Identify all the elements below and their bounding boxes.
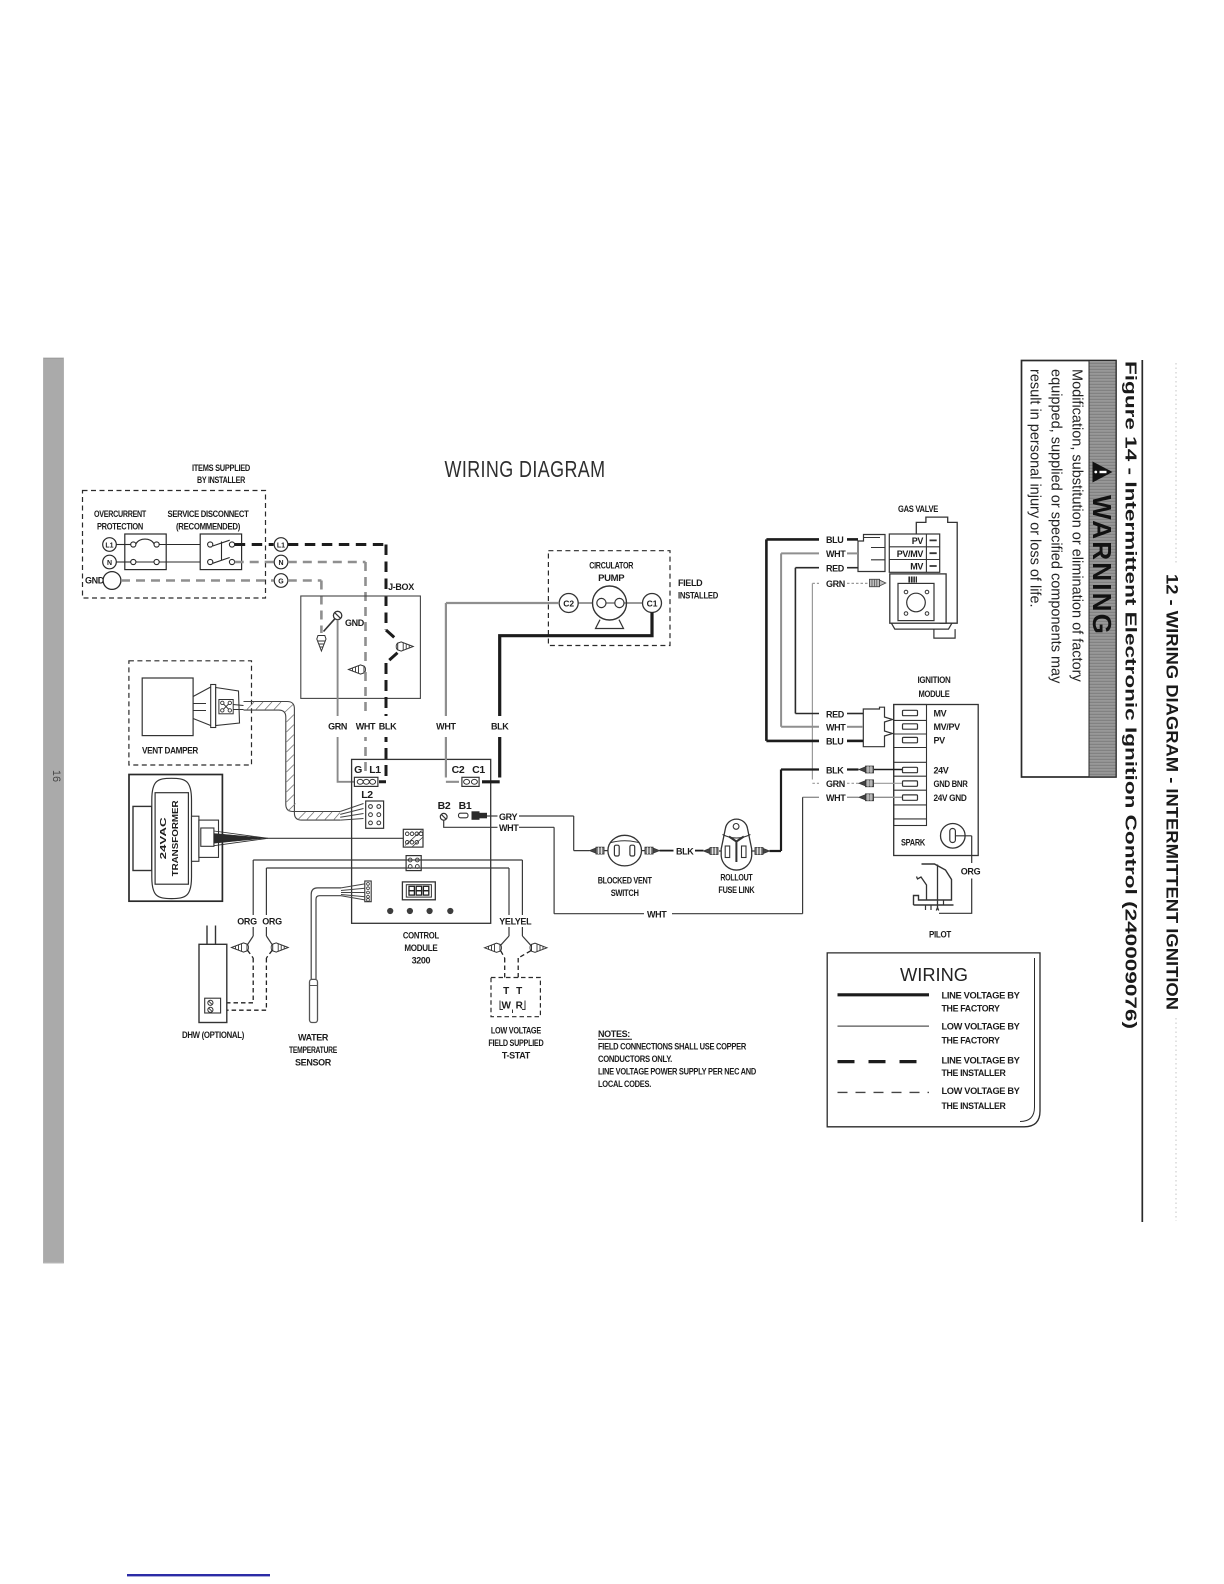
wire BLK chevron through nut: [379, 630, 398, 782]
svg-text:WIRING DIAGRAM: WIRING DIAGRAM: [445, 456, 606, 482]
pump dashed enclosure: [548, 551, 670, 646]
svg-text:C1: C1: [647, 599, 658, 609]
svg-text:LOW VOLTAGE BY: LOW VOLTAGE BY: [942, 1021, 1020, 1031]
wire nut (hot splice): [396, 642, 413, 651]
svg-text:BLK: BLK: [491, 722, 509, 732]
svg-text:3200: 3200: [412, 956, 431, 966]
svg-text:BLK: BLK: [676, 846, 694, 856]
label WHT BLK (pump wires): [432, 716, 514, 737]
svg-text:C1: C1: [472, 764, 485, 776]
wire BLU vertical run: [765, 539, 768, 741]
label ROLLOUT FUSE LINK: [718, 873, 755, 896]
terminal block G L1: [354, 764, 381, 786]
svg-text:24V GND: 24V GND: [934, 793, 968, 803]
wire BLU to module: [766, 737, 863, 747]
svg-text:ROLLOUT: ROLLOUT: [720, 873, 753, 883]
gas valve terminal strip PV PV/MV MV: [889, 534, 939, 572]
control module box: [352, 759, 491, 923]
svg-text:WIRING: WIRING: [900, 965, 968, 985]
wire RED gas valve: [795, 564, 858, 574]
svg-text:GAS VALVE: GAS VALVE: [898, 504, 938, 514]
svg-text:WHT: WHT: [356, 722, 376, 732]
svg-text:SENSOR: SENSOR: [295, 1058, 332, 1068]
wire N dashed gray to node N right: [235, 561, 274, 564]
svg-text:IGNITION: IGNITION: [918, 675, 951, 685]
svg-text:equipped, supplied or specifie: equipped, supplied or specified componen…: [1048, 369, 1064, 684]
wire BLK rollout up to 24V: [770, 770, 782, 852]
svg-text:B2: B2: [438, 800, 451, 812]
svg-text:ORG: ORG: [237, 917, 257, 927]
svg-text:MV: MV: [934, 709, 947, 719]
wire WHT to module: [781, 723, 863, 733]
plug B1: [459, 800, 488, 820]
indicator dots: [387, 908, 453, 914]
wire transformer to module connector: [266, 837, 403, 839]
svg-text:GRN: GRN: [826, 779, 845, 789]
svg-text:MV: MV: [910, 562, 923, 572]
wire nut (ORG right): [266, 936, 288, 958]
svg-text:WHT: WHT: [436, 722, 456, 732]
node C2: [559, 594, 578, 613]
wire nut (ORG left): [232, 936, 254, 958]
wire BLU gas valve: [766, 535, 858, 545]
svg-text:FIELD CONNECTIONS SHALL USE CO: FIELD CONNECTIONS SHALL USE COPPER: [598, 1042, 747, 1052]
label SERVICE DISCONNECT (RECOMMENDED): [168, 509, 250, 532]
pilot assembly: [914, 864, 954, 911]
wire YEL dashed to T-stat: [505, 958, 519, 978]
svg-text:LOW VOLTAGE BY: LOW VOLTAGE BY: [942, 1086, 1020, 1096]
svg-text:GRN: GRN: [826, 579, 845, 589]
label CIRCULATOR PUMP: [589, 561, 634, 584]
svg-text:T: T: [516, 986, 522, 997]
wire WHT dashed from nut down to module terminal: [364, 672, 367, 779]
svg-text:FIELD: FIELD: [678, 578, 703, 588]
DHW aquastat: [199, 926, 227, 1023]
svg-text:LINE VOLTAGE BY: LINE VOLTAGE BY: [942, 991, 1020, 1001]
wire GRN solid from screw to module G terminal: [338, 620, 358, 782]
label LOW VOLTAGE FIELD SUPPLIED T-STAT: [488, 1026, 544, 1061]
svg-text:N: N: [278, 560, 283, 567]
svg-text:GND: GND: [345, 618, 365, 628]
wire nut (YEL left): [485, 936, 510, 958]
svg-text:VENT DAMPER: VENT DAMPER: [142, 746, 199, 756]
svg-text:WHT: WHT: [826, 793, 846, 803]
wire GRN GND BNR: [812, 779, 902, 789]
wire nut (YEL right): [518, 936, 547, 958]
svg-text:L1: L1: [105, 542, 113, 549]
svg-text:RED: RED: [826, 564, 845, 574]
wire WHT vertical run: [780, 553, 782, 726]
svg-text:OVERCURRENT: OVERCURRENT: [94, 509, 147, 519]
warning triangle icon: [1093, 462, 1113, 483]
svg-text:12 - WIRING DIAGRAM - INTERMIT: 12 - WIRING DIAGRAM - INTERMITTENT IGNIT…: [1163, 574, 1181, 1010]
svg-text:ITEMS SUPPLIED: ITEMS SUPPLIED: [192, 463, 251, 473]
svg-text:CONDUCTORS ONLY.: CONDUCTORS ONLY.: [598, 1054, 672, 1064]
label ITEMS SUPPLIED BY INSTALLER: [192, 463, 251, 485]
svg-text:TRANSFORMER: TRANSFORMER: [170, 800, 180, 876]
label IGNITION MODULE: [918, 675, 951, 699]
terminal labels: [934, 709, 969, 804]
svg-text:Figure 14 - Intermittent Elec: Figure 14 - Intermittent Electronic Igni…: [1122, 361, 1139, 1029]
vent damper body: [142, 678, 193, 736]
svg-text:B1: B1: [459, 800, 472, 812]
wire RED vertical run: [794, 568, 796, 714]
wire L1 dashed (line voltage by installer) to node L1 right: [235, 543, 274, 546]
svg-text:FIELD SUPPLIED: FIELD SUPPLIED: [488, 1038, 544, 1048]
svg-text:CIRCULATOR: CIRCULATOR: [589, 561, 634, 571]
svg-text:GRY: GRY: [499, 812, 517, 822]
label YEL YEL: [497, 915, 532, 927]
svg-text:PV/MV: PV/MV: [897, 549, 924, 559]
wire GRY from B1 to blocked vent switch: [487, 812, 590, 851]
svg-text:MODULE: MODULE: [919, 689, 950, 699]
node G: [274, 574, 288, 588]
blue footer line: [127, 1574, 270, 1576]
connector 4-pin: [406, 856, 421, 871]
pump motor: [593, 586, 627, 629]
svg-text:Modification, substitution or: Modification, substitution or eliminatio…: [1069, 369, 1085, 682]
wire GRN gas valve (to ground screw): [812, 579, 885, 589]
label CONTROL MODULE 3200: [403, 931, 440, 966]
vent damper dashed enclosure: [129, 661, 252, 765]
valve harness plug: [863, 707, 892, 747]
wire ORG left from module connector: [253, 860, 522, 936]
connector 5-pin (sensor): [365, 881, 371, 902]
label OVERCURRENT PROTECTION: [94, 509, 147, 532]
warning box: [1022, 361, 1118, 778]
wire ORG to pilot: [939, 836, 981, 914]
wire GND dashed gray to node G: [121, 579, 274, 582]
vent damper motor and plug: [193, 685, 243, 728]
J-box enclosure: [301, 596, 421, 698]
T-stat terminals T T W R: [500, 986, 525, 1013]
label WATER TEMPERATURE SENSOR: [289, 1033, 337, 1068]
svg-text:L2: L2: [361, 789, 373, 801]
T-stat dashed box: [491, 978, 540, 1017]
faint dotted guides: [1175, 363, 1177, 563]
svg-text:N: N: [107, 560, 112, 567]
terminal block C2 C1: [452, 764, 486, 786]
terminal column: [894, 705, 927, 826]
gas valve body: [890, 517, 957, 638]
svg-text:GND: GND: [85, 576, 105, 586]
ground pigtail wire: [324, 619, 335, 632]
wire N dashed from node N to J-box corner: [288, 562, 366, 666]
svg-text:WHT: WHT: [499, 823, 519, 833]
page edge gray tab bar: [44, 358, 64, 1263]
svg-text:SERVICE DISCONNECT: SERVICE DISCONNECT: [168, 509, 250, 519]
wires inside pump box: [578, 602, 642, 604]
node N (left): [103, 555, 117, 569]
svg-text:BLK: BLK: [379, 722, 397, 732]
wire G dashed from node G down into J-box: [288, 581, 322, 634]
svg-text:T: T: [503, 986, 509, 997]
node L1 (left): [103, 538, 117, 552]
svg-text:WARNING: WARNING: [1087, 495, 1117, 636]
connector L2: [361, 789, 383, 828]
section rule line: [1141, 360, 1143, 1222]
svg-text:TEMPERATURE: TEMPERATURE: [289, 1045, 337, 1055]
wire WHT gray from pump C2 to module: [446, 603, 559, 782]
svg-text:WHT: WHT: [647, 910, 667, 920]
svg-text:WATER: WATER: [298, 1033, 329, 1043]
svg-text:GRN: GRN: [328, 722, 347, 732]
node L1 (right): [274, 538, 288, 552]
svg-text:C2: C2: [563, 599, 574, 609]
svg-text:SPARK: SPARK: [901, 838, 926, 848]
ground screw GND: [333, 611, 364, 628]
installer dashed enclosure: [83, 491, 266, 599]
gas valve plug connector: [858, 535, 885, 572]
svg-text:BLK: BLK: [826, 765, 844, 775]
svg-text:G: G: [354, 764, 362, 776]
braided cable from vent damper to module L2: [244, 702, 364, 821]
screw B2: [438, 800, 451, 820]
wire nut (neutral splice): [349, 665, 366, 674]
wire N circle to fuse block: [116, 561, 130, 563]
svg-text:24VAC: 24VAC: [158, 817, 168, 859]
svg-text:LOCAL CODES.: LOCAL CODES.: [598, 1079, 651, 1089]
svg-text:CONTROL: CONTROL: [403, 931, 440, 941]
svg-text:BLU: BLU: [826, 535, 843, 545]
wire BLK from pump C1 to module: [482, 613, 652, 782]
svg-text:PV: PV: [934, 736, 946, 746]
svg-text:LOW VOLTAGE: LOW VOLTAGE: [491, 1026, 541, 1036]
svg-text:G: G: [278, 578, 284, 585]
svg-text:THE INSTALLER: THE INSTALLER: [942, 1068, 1007, 1078]
ignition module box: [894, 705, 979, 856]
svg-text:BLOCKED VENT: BLOCKED VENT: [598, 876, 653, 886]
node GND (left): [85, 572, 121, 590]
svg-text:L1: L1: [277, 542, 285, 549]
svg-text:result in personal injury or l: result in personal injury or loss of lif…: [1027, 369, 1043, 608]
svg-text:THE INSTALLER: THE INSTALLER: [942, 1101, 1007, 1111]
wire fuse block to disconnect: [159, 545, 207, 563]
svg-text:FUSE LINK: FUSE LINK: [718, 885, 755, 895]
display 888: [402, 882, 435, 900]
sensor cable: [311, 884, 365, 980]
wire L1 dashed from node L1 to J-box corner: [288, 545, 386, 631]
svg-text:WHT: WHT: [826, 549, 846, 559]
wire RED to module: [795, 709, 863, 719]
svg-text:PV: PV: [912, 536, 924, 546]
svg-text:YEL: YEL: [515, 917, 532, 927]
wire WHT 24V GND: [803, 793, 902, 803]
connector 8-pin: [403, 829, 423, 847]
svg-text:T-STAT: T-STAT: [502, 1051, 531, 1061]
label ORG ORG: [236, 915, 282, 927]
wire ORG verticals to DHW: [253, 860, 266, 936]
wire GRN vertical run: [811, 583, 813, 779]
wire WHT gas valve: [781, 549, 858, 559]
svg-text:(RECOMMENDED): (RECOMMENDED): [176, 522, 240, 532]
svg-text:THE FACTORY: THE FACTORY: [942, 1003, 1000, 1013]
svg-text:BLU: BLU: [826, 737, 843, 747]
svg-text:NOTES:: NOTES:: [598, 1029, 630, 1039]
svg-text:THE FACTORY: THE FACTORY: [942, 1036, 1000, 1046]
wire BLK between switch and rollout: [660, 846, 704, 856]
overcurrent protection box (fuse block): [125, 534, 166, 570]
node N (right): [274, 555, 288, 569]
svg-text:PROTECTION: PROTECTION: [97, 522, 143, 532]
svg-text:BY INSTALLER: BY INSTALLER: [197, 475, 246, 485]
service disconnect box (switch): [200, 534, 241, 570]
sensor probe: [310, 979, 318, 1022]
svg-text:ORG: ORG: [262, 917, 282, 927]
svg-text:LINE VOLTAGE BY: LINE VOLTAGE BY: [942, 1055, 1020, 1065]
svg-text:MODULE: MODULE: [404, 943, 437, 953]
svg-text:L1: L1: [369, 764, 381, 776]
svg-text:PUMP: PUMP: [598, 573, 624, 583]
wire WHT from B2: [444, 797, 803, 919]
svg-text:WHT: WHT: [826, 723, 846, 733]
svg-text:SWITCH: SWITCH: [611, 888, 639, 898]
wire BLK 24V: [781, 765, 902, 775]
svg-text:RED: RED: [826, 709, 845, 719]
svg-text:PILOT: PILOT: [929, 930, 952, 940]
transformer secondary wire fan: [214, 834, 266, 844]
svg-text:DHW (OPTIONAL): DHW (OPTIONAL): [182, 1030, 244, 1040]
node C1: [643, 594, 662, 613]
svg-text:24V: 24V: [934, 766, 949, 776]
svg-text:J-BOX: J-BOX: [388, 582, 414, 592]
svg-text:GND BNR: GND BNR: [934, 779, 969, 789]
svg-text:INSTALLED: INSTALLED: [678, 591, 719, 601]
svg-text:ORG: ORG: [961, 867, 981, 877]
label FIELD INSTALLED: [678, 578, 719, 601]
spark output: [901, 824, 972, 849]
svg-text:16: 16: [50, 770, 62, 782]
svg-text:LINE VOLTAGE POWER SUPPLY PER: LINE VOLTAGE POWER SUPPLY PER NEC AND: [598, 1067, 757, 1077]
transformer 24VAC: [129, 775, 222, 902]
wire ORG right from module connector: [266, 868, 509, 936]
svg-text:C2: C2: [452, 764, 465, 776]
label GRN WHT BLK under J-box: [322, 716, 400, 737]
wire L1 circle to fuse block: [116, 544, 130, 546]
wire nut (ground splice): [317, 636, 326, 652]
wire ORG dashed to DHW terminals: [216, 958, 266, 1010]
svg-text:MV/PV: MV/PV: [934, 722, 961, 732]
label BLOCKED VENT SWITCH: [598, 876, 653, 899]
